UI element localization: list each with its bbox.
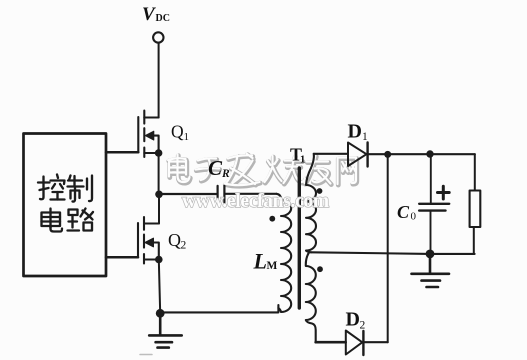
label 制 xyxy=(68,176,93,202)
junction: C_O bottom xyxy=(426,250,435,259)
inductor L_M / primary winding xyxy=(277,194,292,312)
phase dot: secondary bottom xyxy=(317,266,323,272)
wire: D2 to cathode join xyxy=(364,341,388,343)
svg-text:C: C xyxy=(208,156,223,180)
svg-text:www.elecfans.com: www.elecfans.com xyxy=(182,191,329,212)
svg-text:Q: Q xyxy=(168,230,181,250)
label D2 xyxy=(346,309,366,332)
wire: control box to Q1 gate xyxy=(106,151,138,154)
plus sign (C_O polarity) xyxy=(438,186,450,199)
phase dot: primary xyxy=(269,216,275,222)
ground (bridge side) xyxy=(149,313,182,347)
junction: Q2 source xyxy=(155,256,163,264)
watermark row 1: 电子发烧友网 (gray embossed) xyxy=(168,154,357,187)
svg-text:DC: DC xyxy=(156,13,170,24)
svg-text:L: L xyxy=(253,249,267,274)
label D1 xyxy=(348,121,369,144)
junction: C_O top xyxy=(426,150,433,157)
svg-text:Q: Q xyxy=(171,122,184,142)
wire: Vdc terminal to Q1 drain xyxy=(158,43,160,118)
MOSFET Q1 xyxy=(138,111,158,157)
svg-text:V: V xyxy=(142,4,156,25)
wire: mid node to C_R xyxy=(159,193,217,195)
svg-text:R: R xyxy=(221,168,230,180)
label C_R xyxy=(208,156,230,180)
control circuit box xyxy=(24,134,107,277)
wire: C_R to primary winding xyxy=(225,193,277,195)
label 控制 (control) xyxy=(38,175,65,200)
wire: D1 to output rail xyxy=(368,153,475,155)
wire: load resistor to return rail xyxy=(473,227,475,254)
wire: D1-D2 cathode join xyxy=(387,154,389,342)
label V_DC xyxy=(142,4,170,25)
diode D2 xyxy=(346,331,364,356)
wire: Q2 source to ground node xyxy=(159,260,160,314)
svg-text:0: 0 xyxy=(411,211,417,223)
phase dot: secondary top xyxy=(317,188,323,194)
svg-text:M: M xyxy=(267,260,278,272)
label Q2 xyxy=(168,230,187,252)
transformer core T1 xyxy=(298,168,301,308)
label L_M xyxy=(253,249,278,274)
svg-text:D: D xyxy=(348,121,362,143)
svg-text:1: 1 xyxy=(184,131,190,143)
input terminal (Vdc) xyxy=(153,32,163,42)
junction: rectifier output node xyxy=(384,151,391,158)
stray mark xyxy=(140,354,152,356)
secondary winding (top half) xyxy=(306,154,316,253)
junction: Q1 source xyxy=(155,149,163,157)
wire: control box to Q2 gate xyxy=(106,256,138,259)
wire: output rail to load resistor xyxy=(474,154,476,190)
junction: ground node xyxy=(156,309,165,318)
wire: secondary bottom to D2 xyxy=(316,341,346,344)
label Q1 xyxy=(171,122,189,144)
svg-text:2: 2 xyxy=(360,320,366,332)
ground (output side) xyxy=(412,254,450,287)
svg-text:2: 2 xyxy=(181,240,187,252)
svg-text:D: D xyxy=(346,309,360,331)
wire: mid node to Q2 drain xyxy=(158,194,160,223)
label C_O xyxy=(397,202,417,223)
watermark row 2: www.elecfans.com (white embossed) xyxy=(182,191,329,212)
svg-text:C: C xyxy=(397,202,410,222)
svg-text:1: 1 xyxy=(362,131,368,143)
capacitor C_R xyxy=(218,186,225,203)
capacitor C_O xyxy=(419,154,449,254)
label 路 xyxy=(68,209,94,231)
wire: center tap to output return xyxy=(311,252,475,254)
MOSFET Q2 xyxy=(138,217,159,264)
junction: mid node xyxy=(155,191,163,199)
label 电 xyxy=(42,209,63,232)
load resistor R xyxy=(470,191,481,228)
svg-text:1: 1 xyxy=(300,155,305,166)
diode D1 xyxy=(348,143,368,167)
wire: bottom return to primary xyxy=(160,305,278,312)
secondary winding (bottom half) xyxy=(306,253,316,343)
wire: secondary top to D1 xyxy=(314,153,348,155)
wire: Q1 source to mid node xyxy=(158,153,160,194)
label T1 xyxy=(290,145,305,166)
